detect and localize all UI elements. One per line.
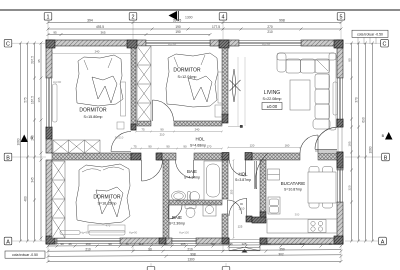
svg-text:Hg=90: Hg=90 — [129, 231, 138, 235]
opening right living door threshold — [338, 127, 342, 152]
svg-text:95: 95 — [53, 30, 57, 34]
cota trotuar box left — [5, 251, 45, 258]
axis bubble 1 — [44, 13, 52, 21]
window right kitchen — [338, 170, 343, 202]
svg-text:255: 255 — [229, 189, 233, 194]
axis bubble B left — [4, 153, 46, 161]
wire walls-interior — [52, 46, 337, 238]
toilet baie2 — [185, 204, 196, 218]
column right wall at middle wall — [337, 152, 343, 168]
svg-text:1: 1 — [47, 15, 50, 21]
svg-text:DORMITOR: DORMITOR — [79, 108, 107, 114]
svg-text:370: 370 — [355, 97, 359, 103]
label living — [262, 90, 282, 110]
column bottom wall b — [222, 238, 229, 244]
wall right lower — [337, 202, 343, 244]
sheet border top — [0, 9, 400, 11]
wall dorm2 bottom behind wardrobe — [137, 121, 151, 126]
axis stub bottom 2 — [132, 244, 134, 252]
dim line left col2 — [26, 42, 29, 243]
svg-text:2.10: 2.10 — [239, 207, 245, 211]
svg-text:394.5: 394.5 — [173, 18, 182, 22]
window bottom baie2 — [172, 239, 196, 244]
svg-text:1060: 1060 — [369, 146, 373, 153]
svg-text:397.5: 397.5 — [31, 56, 35, 64]
svg-text:90: 90 — [211, 242, 215, 246]
column left wall mid — [46, 127, 52, 139]
svg-text:1300: 1300 — [185, 16, 193, 20]
svg-text:HOL: HOL — [238, 172, 248, 177]
svg-text:170: 170 — [207, 144, 212, 148]
porch steps — [229, 244, 260, 253]
axis bubble A right — [345, 237, 386, 245]
axis bubble bottom partial a — [147, 263, 155, 270]
label hol big — [190, 137, 206, 148]
wall right mid — [337, 119, 343, 127]
dim line left col3 — [33, 42, 36, 243]
svg-text:BAIE: BAIE — [172, 215, 182, 220]
svg-text:BUCATARIE: BUCATARIE — [281, 181, 306, 186]
svg-text:46: 46 — [125, 242, 129, 246]
door entrance right wall — [315, 127, 337, 151]
svg-text:690: 690 — [362, 117, 366, 123]
toilet baie1 — [188, 192, 200, 202]
label hol small — [235, 172, 251, 183]
svg-text:90: 90 — [183, 144, 187, 148]
axis line 5 — [340, 21, 342, 41]
svg-text:177.5: 177.5 — [212, 25, 220, 29]
door dorm2 — [153, 100, 174, 121]
svg-text:S=3.87mp: S=3.87mp — [235, 178, 251, 182]
column bottom wall c — [260, 238, 267, 244]
svg-text:305: 305 — [299, 242, 304, 246]
bench dorm3 — [88, 225, 125, 232]
svg-text:46: 46 — [328, 242, 332, 246]
svg-text:Hg=90: Hg=90 — [80, 231, 89, 235]
svg-text:160: 160 — [285, 143, 290, 147]
axis bubble A left — [4, 237, 46, 245]
wall top segment 3 — [301, 40, 343, 46]
column corner top-left — [46, 40, 55, 48]
wall middle seg2 — [157, 153, 176, 160]
dim line right col3 — [364, 42, 367, 243]
column vestibule door jamb — [246, 216, 252, 222]
bed dorm3 — [76, 164, 130, 224]
wall V1 between dormitors — [131, 46, 136, 130]
svg-text:90: 90 — [164, 242, 168, 246]
axis bubble 5 — [337, 13, 345, 21]
svg-text:±0.00: ±0.00 — [267, 104, 278, 109]
radiator dorm1 right wall — [121, 82, 126, 116]
dim dorm1 240 — [51, 53, 132, 55]
svg-text:210: 210 — [187, 247, 193, 251]
dresser dorm2 — [215, 105, 225, 117]
wall middle seg5 — [318, 153, 337, 160]
window right living — [338, 78, 343, 119]
svg-text:240: 240 — [95, 49, 100, 53]
label dormitor3 — [93, 195, 121, 206]
wall baie divider — [169, 200, 222, 205]
column axis4 top — [219, 40, 229, 48]
axis stub bottom 4 — [222, 244, 224, 252]
svg-text:B: B — [6, 155, 10, 161]
svg-text:cota trotuar -0.50: cota trotuar -0.50 — [12, 253, 38, 257]
wall middle seg4 — [252, 153, 300, 160]
svg-text:46: 46 — [68, 242, 72, 246]
svg-text:160: 160 — [85, 242, 90, 246]
dim line right col1 — [350, 42, 353, 243]
axis bubble C right — [345, 39, 388, 47]
svg-text:240: 240 — [31, 135, 35, 141]
door baie2 divider — [168, 205, 182, 219]
wall left lower — [46, 160, 52, 244]
svg-text:80: 80 — [348, 58, 352, 62]
svg-text:210: 210 — [160, 132, 165, 136]
svg-text:Hg=90: Hg=90 — [168, 42, 177, 46]
axis bubble B right — [345, 153, 389, 161]
svg-text:DORMITOR: DORMITOR — [173, 68, 201, 74]
window top dorm2 — [146, 41, 210, 46]
column corner bottom-left — [46, 236, 55, 244]
svg-text:998: 998 — [190, 252, 196, 256]
svg-text:105: 105 — [180, 242, 185, 246]
coffee table living — [290, 80, 310, 110]
svg-text:90: 90 — [108, 242, 112, 246]
svg-text:167.5: 167.5 — [31, 96, 35, 104]
svg-text:460: 460 — [24, 196, 28, 202]
bathtub baie1 — [204, 161, 222, 200]
svg-text:90: 90 — [148, 144, 152, 148]
box dorm1 right — [117, 122, 124, 129]
wall bottom seg4 — [260, 238, 343, 244]
svg-text:90: 90 — [60, 242, 64, 246]
wall right below living door — [337, 152, 343, 170]
axis stub bottom 1 — [47, 244, 49, 262]
svg-text:75: 75 — [141, 127, 145, 131]
dim line right col2 — [357, 42, 360, 243]
svg-text:302: 302 — [278, 252, 284, 256]
wall bottom seg1 — [46, 238, 57, 244]
wall V3 hol right — [260, 160, 266, 212]
kitchen sink unit — [268, 197, 280, 214]
svg-text:190: 190 — [175, 25, 181, 29]
label baie1 — [184, 169, 200, 180]
wall V4 lower — [222, 214, 228, 238]
svg-text:240: 240 — [195, 127, 200, 131]
svg-text:2: 2 — [132, 15, 135, 21]
svg-text:493.5: 493.5 — [96, 25, 104, 29]
wall V4 hol left — [222, 160, 228, 199]
svg-text:C: C — [6, 42, 10, 48]
dim line top row2 — [47, 28, 343, 31]
radiator living right — [333, 82, 338, 115]
svg-text:90: 90 — [160, 127, 164, 131]
svg-text:95: 95 — [37, 59, 41, 63]
svg-text:250: 250 — [279, 247, 285, 251]
axis line 2 — [132, 21, 134, 41]
axis line 1 — [47, 21, 49, 41]
svg-text:S=10.87mp: S=10.87mp — [284, 188, 302, 192]
wall left upper — [46, 40, 52, 78]
axis line 4 — [222, 21, 224, 41]
windows — [47, 41, 343, 244]
wall living left — [222, 46, 228, 115]
svg-text:300: 300 — [295, 213, 300, 217]
opening entrance threshold — [229, 240, 260, 243]
svg-text:125: 125 — [238, 225, 243, 229]
svg-text:4: 4 — [222, 15, 225, 21]
wall middle left — [52, 153, 131, 160]
svg-text:110: 110 — [139, 242, 144, 246]
wall middle seg3 — [194, 153, 222, 160]
door living-dorm2 sliding — [228, 57, 245, 128]
axis bubble 2 — [129, 13, 137, 21]
wardrobe dorm2 — [137, 46, 151, 121]
svg-text:190: 190 — [175, 30, 181, 34]
radiator dorm3 a — [60, 231, 80, 235]
column middle wall d — [245, 153, 252, 161]
dim line bottom row4 — [47, 260, 343, 263]
column bottom wall a — [159, 238, 166, 244]
column corner bottom-right — [334, 236, 343, 244]
svg-text:125: 125 — [241, 242, 246, 246]
door dorm1 — [111, 132, 131, 152]
dim line bottom row2 — [47, 250, 343, 253]
svg-text:998: 998 — [279, 18, 285, 22]
svg-text:394: 394 — [87, 18, 93, 22]
svg-text:575: 575 — [24, 97, 28, 103]
dim line hol vertical — [233, 159, 235, 239]
door baie1 — [176, 160, 194, 178]
svg-text:C: C — [383, 42, 387, 48]
wardrobe dorm1 — [53, 140, 100, 153]
svg-text:5: 5 — [340, 15, 343, 21]
svg-text:1060: 1060 — [17, 138, 21, 145]
axis bubble C left — [4, 39, 46, 47]
doors — [111, 57, 337, 219]
section arrow left — [21, 135, 34, 143]
svg-text:DORMITOR: DORMITOR — [93, 195, 121, 201]
bed dorm1 — [76, 55, 123, 106]
label dormitor1 — [79, 108, 107, 120]
column right wall mid — [337, 119, 343, 127]
kitchen counter — [267, 219, 337, 233]
svg-text:75: 75 — [133, 144, 137, 148]
door baie2 hall side — [228, 200, 242, 214]
sink baie1 — [172, 191, 186, 201]
door kitchen-living — [300, 135, 318, 153]
dim line top row1 — [47, 21, 343, 24]
door dorm3 — [142, 160, 163, 181]
wall V2 baie left — [163, 160, 169, 238]
column corner top-right — [334, 40, 343, 48]
section arrow right — [382, 132, 393, 140]
wall top segment 1 — [46, 40, 146, 46]
wall bottom seg3 — [196, 238, 229, 244]
radiator dorm1 left — [53, 84, 58, 122]
radiator dorm2 right — [218, 72, 222, 103]
north arrow — [169, 11, 193, 21]
cota trotuar box right — [352, 30, 388, 44]
svg-text:BAIE: BAIE — [187, 169, 197, 174]
svg-text:475: 475 — [106, 224, 111, 228]
door hol middle — [230, 160, 246, 176]
svg-text:210: 210 — [267, 30, 273, 34]
svg-text:345: 345 — [31, 177, 35, 183]
svg-text:S=2.30mp: S=2.30mp — [169, 222, 185, 226]
svg-text:90/210: 90/210 — [115, 136, 124, 140]
svg-text:1300: 1300 — [187, 258, 194, 262]
door vestibule — [229, 198, 247, 216]
column living left wall end — [222, 114, 228, 123]
column middle wall b — [156, 153, 162, 160]
svg-text:210: 210 — [85, 247, 91, 251]
label dormitor2 — [173, 68, 201, 80]
wall dorm2 bottom — [174, 121, 222, 126]
dim line corridor — [135, 131, 223, 133]
svg-text:LIVING: LIVING — [264, 90, 281, 96]
svg-text:90: 90 — [240, 202, 244, 206]
svg-text:90: 90 — [148, 247, 152, 251]
wall top segment 2 — [210, 40, 239, 46]
svg-text:S=16.15mp: S=16.15mp — [98, 202, 117, 206]
svg-text:S=12.04mp: S=12.04mp — [178, 75, 197, 79]
axis bubble 4 — [219, 13, 227, 21]
radiator dorm3 b — [89, 231, 125, 236]
svg-text:Hg=90: Hg=90 — [262, 42, 271, 46]
dim line top row3 — [47, 33, 212, 36]
dim line bottom row1 — [47, 245, 343, 248]
wall left mid — [46, 127, 52, 153]
window top living — [239, 41, 301, 46]
column V3 bottom — [260, 212, 266, 218]
wire walls-exterior — [46, 40, 343, 244]
dim line left col1 — [19, 42, 22, 243]
svg-text:46: 46 — [229, 242, 233, 246]
dim line left col4 — [40, 42, 43, 242]
svg-text:A: A — [381, 239, 385, 245]
svg-text:90: 90 — [166, 144, 170, 148]
svg-text:S=4.68mp: S=4.68mp — [190, 144, 206, 148]
window bottom dorm3 — [57, 239, 120, 244]
axis bubble bottom partial b — [222, 263, 230, 270]
wall bottom seg2 — [120, 238, 172, 244]
label bucatarie — [281, 181, 306, 192]
svg-text:cota trotuar -0.50: cota trotuar -0.50 — [357, 32, 383, 36]
column middle wall a — [131, 153, 141, 160]
dim line living bottom — [227, 147, 301, 149]
svg-text:185: 185 — [348, 141, 352, 146]
svg-text:Hg=90: Hg=90 — [53, 80, 62, 84]
door kitchen — [255, 154, 268, 190]
svg-text:90: 90 — [267, 242, 271, 246]
washer baie2 — [203, 203, 216, 216]
kitchen cabinet — [268, 169, 280, 180]
label baie2 — [169, 215, 185, 226]
dim line corridor row2 — [130, 148, 223, 150]
window left dorm1 — [47, 78, 52, 127]
wardrobe dorm3 — [52, 161, 65, 238]
column middle wall c — [222, 153, 229, 161]
kitchen table — [308, 167, 336, 209]
dim line bottom row3 — [47, 255, 343, 258]
wall right upper — [337, 40, 343, 78]
svg-text:S=22.08mp: S=22.08mp — [263, 97, 282, 101]
svg-text:120: 120 — [250, 143, 255, 147]
svg-text:320: 320 — [348, 185, 352, 190]
dim line right col4 — [371, 42, 374, 243]
svg-text:HOL: HOL — [195, 137, 205, 142]
svg-text:165: 165 — [37, 97, 41, 102]
svg-text:A: A — [6, 239, 10, 245]
svg-text:B: B — [384, 155, 388, 161]
svg-text:Hg=100: Hg=100 — [179, 231, 189, 235]
svg-text:270: 270 — [267, 25, 273, 29]
sofa living — [277, 53, 336, 130]
svg-text:S=4.14mp: S=4.14mp — [184, 176, 200, 180]
svg-text:365: 365 — [100, 30, 105, 34]
column axis2 top — [127, 40, 137, 48]
bed dorm2 — [166, 53, 218, 107]
wall bar vestibule — [252, 217, 266, 223]
columns — [46, 40, 343, 244]
column dorm2 wall end — [131, 124, 136, 130]
axis stub bottom 5 — [340, 244, 342, 262]
svg-text:S=15.80mp: S=15.80mp — [84, 115, 103, 119]
